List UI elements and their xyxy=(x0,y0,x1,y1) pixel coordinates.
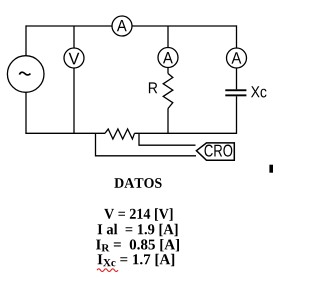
voltmeter V1 letter xyxy=(69,53,80,65)
resistor R vertical zigzag xyxy=(163,74,173,109)
label data IR = 0.85 [A] xyxy=(96,239,179,251)
wire resistor R to bottom rail xyxy=(167,109,169,134)
wire middle branch top xyxy=(167,26,169,48)
wire AC source to bottom rail xyxy=(25,92,27,133)
wire CRO left tap xyxy=(96,133,197,156)
CRO label xyxy=(205,145,233,157)
resistor shunt horizontal zigzag xyxy=(105,129,135,139)
ammeter A3 letter xyxy=(231,52,241,63)
capacitor Xc bottom plate xyxy=(225,94,246,96)
label data I al = 1.9 [A] xyxy=(98,224,178,236)
wire ammeter A3 to capacitor xyxy=(236,68,238,89)
label data IXc = 1.7 [A] xyxy=(98,254,175,267)
red spellcheck squiggle under IXc xyxy=(97,269,118,272)
wire left vertical to AC source xyxy=(25,25,27,56)
ammeter A1 circle xyxy=(112,16,132,36)
ammeter A1 letter xyxy=(117,20,127,31)
CRO probe tag outline xyxy=(196,143,234,160)
ammeter A2 circle xyxy=(158,48,178,68)
wire voltmeter branch top xyxy=(73,26,75,48)
wire bottom rail left segment xyxy=(25,132,105,134)
wire voltmeter branch bottom xyxy=(73,68,75,133)
stray black mark at right edge xyxy=(269,165,273,173)
AC source tilde xyxy=(19,72,30,75)
AC source G1 circle xyxy=(7,56,44,93)
label DATOS heading xyxy=(114,178,161,188)
label R xyxy=(149,82,157,93)
label data V = 214 [V] xyxy=(104,208,172,220)
capacitor Xc top plate xyxy=(225,89,246,91)
wire capacitor to bottom rail xyxy=(236,96,238,134)
voltmeter V1 circle xyxy=(64,48,84,68)
ammeter A3 circle xyxy=(227,48,247,68)
wire top rail xyxy=(26,25,237,27)
wire ammeter A2 to resistor R xyxy=(167,68,169,74)
ammeter A2 letter xyxy=(163,52,173,63)
label Xc xyxy=(251,86,266,97)
wire bottom rail right segment xyxy=(135,132,237,134)
wire CRO right tap xyxy=(139,133,196,145)
wire right branch top xyxy=(236,25,238,48)
